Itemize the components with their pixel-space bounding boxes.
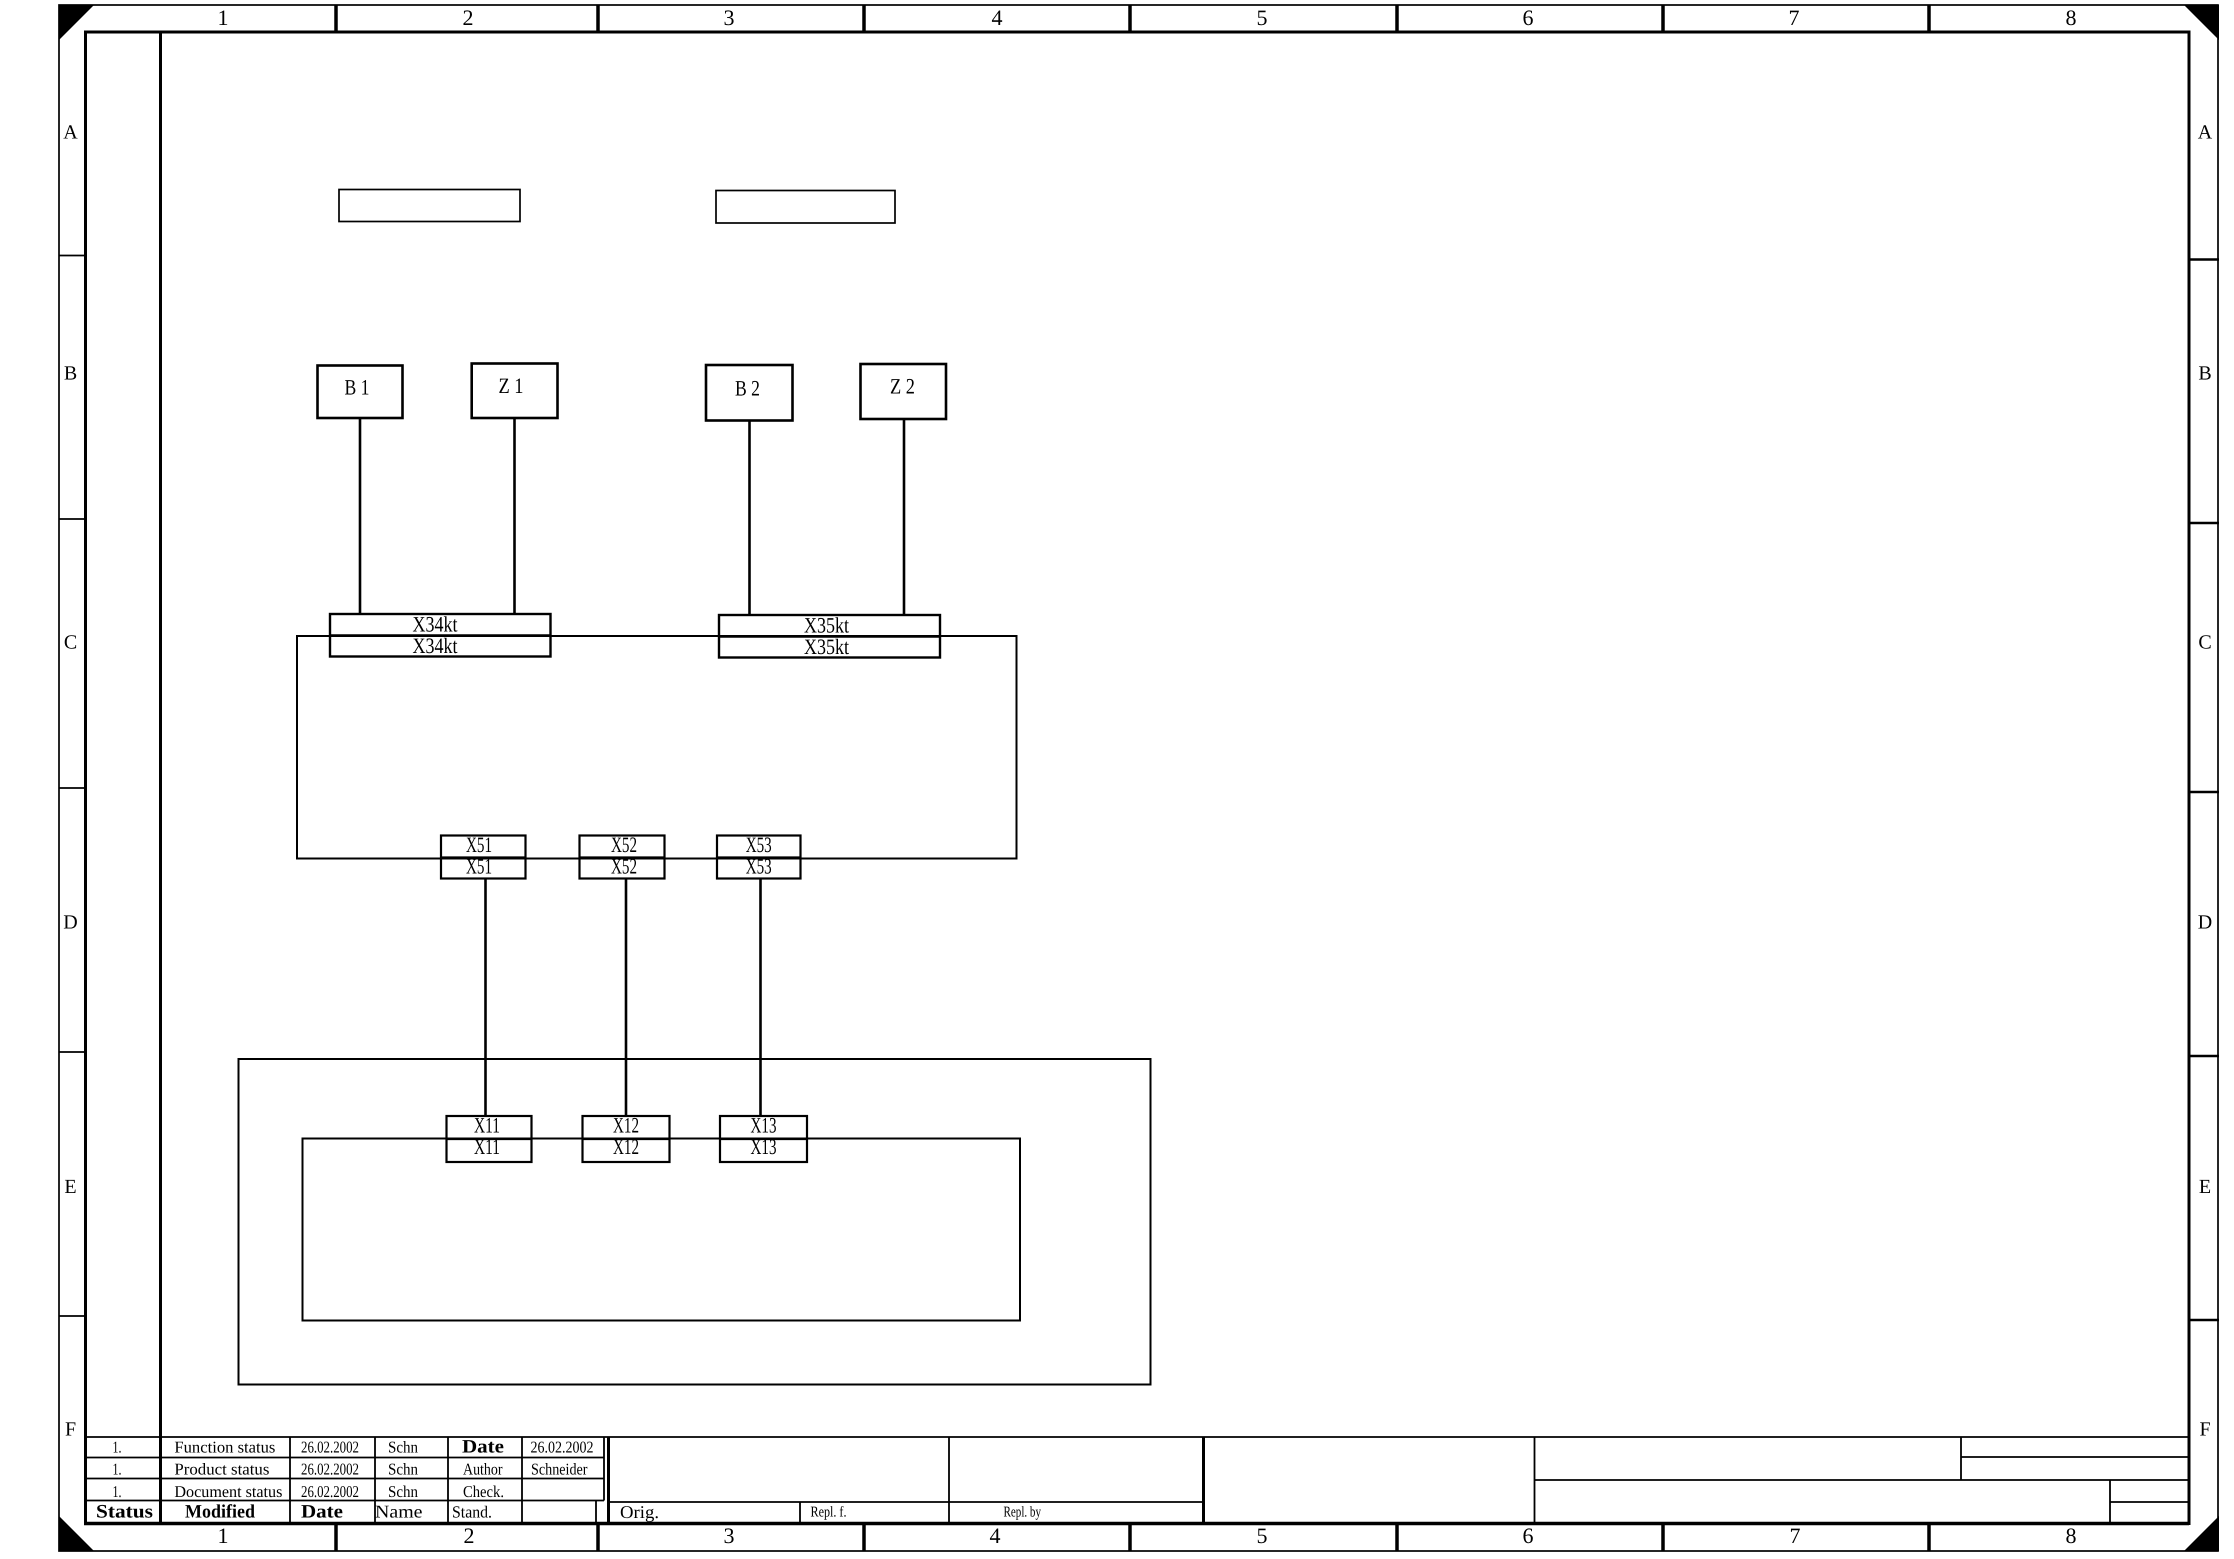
- svg-text:Document status: Document status: [174, 1482, 282, 1501]
- svg-text:X35kt: X35kt: [804, 634, 849, 659]
- svg-text:Schn: Schn: [388, 1482, 418, 1501]
- svg-text:C: C: [64, 632, 77, 654]
- svg-text:D: D: [63, 912, 77, 934]
- svg-text:Product status: Product status: [174, 1460, 269, 1479]
- svg-text:X51: X51: [466, 853, 492, 878]
- svg-text:26.02.2002: 26.02.2002: [301, 1460, 359, 1479]
- svg-text:26.02.2002: 26.02.2002: [301, 1437, 359, 1456]
- wire B2 to X35kt: [748, 421, 751, 616]
- svg-text:4: 4: [992, 5, 1003, 30]
- svg-text:B 1: B 1: [345, 375, 370, 400]
- wire Z2 to X35kt: [903, 419, 906, 615]
- svg-text:Repl. by: Repl. by: [1004, 1505, 1042, 1521]
- svg-text:Date: Date: [301, 1502, 343, 1523]
- wire B1 to X34kt: [359, 418, 362, 614]
- svg-text:D: D: [2198, 912, 2212, 934]
- svg-text:Orig.: Orig.: [620, 1502, 659, 1522]
- svg-text:26.02.2002: 26.02.2002: [301, 1482, 359, 1501]
- svg-text:Function status: Function status: [174, 1437, 275, 1456]
- svg-text:26.02.2002: 26.02.2002: [531, 1437, 594, 1456]
- svg-text:Schneider: Schneider: [531, 1460, 588, 1479]
- svg-text:E: E: [2199, 1176, 2211, 1198]
- wire Z1 to X34kt: [513, 418, 516, 614]
- wire X53 to X13: [759, 879, 762, 1117]
- connector X34kt: [330, 612, 551, 659]
- svg-text:3: 3: [724, 5, 735, 30]
- svg-text:B: B: [64, 363, 77, 385]
- svg-text:Z 2: Z 2: [890, 374, 915, 399]
- svg-text:7: 7: [1789, 5, 1800, 30]
- svg-text:8: 8: [2066, 1523, 2077, 1548]
- placeholder box 2: [716, 191, 895, 224]
- connector X35kt: [719, 613, 940, 660]
- svg-text:6: 6: [1523, 5, 1534, 30]
- svg-text:1.: 1.: [113, 1437, 122, 1456]
- connector X51: [441, 832, 526, 879]
- connector X13: [720, 1113, 807, 1162]
- svg-text:1.: 1.: [113, 1460, 122, 1479]
- placeholder box 1: [339, 190, 520, 222]
- svg-text:A: A: [2198, 122, 2213, 144]
- svg-text:3: 3: [724, 1523, 735, 1548]
- svg-text:Stand.: Stand.: [452, 1503, 492, 1522]
- enclosure box lower inner: [303, 1139, 1021, 1321]
- svg-text:Z 1: Z 1: [499, 373, 524, 398]
- wire X52 to X12: [625, 879, 628, 1117]
- svg-text:Schn: Schn: [388, 1460, 418, 1479]
- svg-text:Repl. f.: Repl. f.: [811, 1505, 847, 1521]
- svg-text:5: 5: [1257, 1523, 1268, 1548]
- svg-text:Author: Author: [463, 1460, 503, 1479]
- svg-text:X53: X53: [746, 853, 772, 878]
- svg-text:Name: Name: [375, 1502, 423, 1522]
- connector X53: [717, 832, 801, 879]
- svg-text:4: 4: [990, 1523, 1001, 1548]
- svg-text:7: 7: [1790, 1523, 1801, 1548]
- svg-text:Check.: Check.: [463, 1482, 504, 1501]
- svg-text:E: E: [64, 1176, 76, 1198]
- svg-text:Status: Status: [96, 1502, 153, 1523]
- svg-text:A: A: [63, 122, 78, 144]
- svg-text:1: 1: [218, 5, 229, 30]
- svg-text:2: 2: [464, 1523, 475, 1548]
- svg-text:6: 6: [1523, 1523, 1534, 1548]
- svg-text:X52: X52: [611, 853, 637, 878]
- svg-text:2: 2: [463, 5, 474, 30]
- svg-text:8: 8: [2066, 5, 2077, 30]
- svg-text:Modified: Modified: [185, 1502, 255, 1523]
- device B2: [706, 365, 793, 421]
- svg-text:5: 5: [1257, 5, 1268, 30]
- connector X11: [447, 1113, 532, 1162]
- svg-text:F: F: [2199, 1419, 2210, 1441]
- svg-text:1: 1: [218, 1523, 229, 1548]
- device Z2: [861, 364, 947, 419]
- enclosure box upper: [297, 636, 1017, 859]
- enclosure box lower outer: [239, 1059, 1151, 1385]
- svg-text:C: C: [2198, 632, 2211, 654]
- svg-text:Schn: Schn: [388, 1437, 418, 1456]
- svg-text:F: F: [65, 1419, 76, 1441]
- svg-text:Date: Date: [462, 1436, 504, 1457]
- svg-text:B: B: [2198, 363, 2211, 385]
- device Z1: [472, 364, 558, 419]
- connector X12: [583, 1113, 670, 1162]
- svg-text:B 2: B 2: [735, 376, 760, 401]
- device B1: [318, 366, 403, 419]
- wire X51 to X11: [484, 879, 487, 1117]
- svg-text:1.: 1.: [113, 1482, 122, 1501]
- connector X52: [580, 832, 665, 879]
